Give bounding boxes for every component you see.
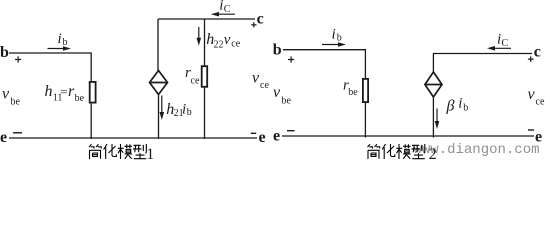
svg-text:i: i [458, 96, 462, 112]
label rce [185, 65, 200, 87]
svg-text:i: i [332, 27, 336, 43]
svg-text:b: b [463, 102, 468, 113]
bottom wire (right circuit) [282, 135, 534, 137]
svg-text:be: be [75, 93, 85, 104]
label ib (left) [58, 31, 68, 48]
minus sign at right e (right circuit) [528, 129, 534, 131]
svg-text:e: e [273, 128, 280, 145]
svg-text:e: e [259, 129, 266, 146]
wire b to h11 branch [9, 52, 92, 81]
svg-text:be: be [11, 97, 21, 108]
svg-text:v: v [2, 86, 10, 103]
svg-text:c: c [534, 44, 541, 61]
current iC arrow (right) [487, 46, 511, 51]
svg-text:ce: ce [260, 80, 269, 91]
svg-text:22: 22 [214, 40, 224, 51]
label ib (right) [332, 27, 342, 44]
resistor rce [202, 66, 208, 87]
plus sign at b (left) [15, 56, 21, 62]
label beta ib [446, 96, 469, 115]
svg-text:1: 1 [146, 146, 154, 163]
beta ib current arrow [435, 109, 440, 130]
svg-text:C: C [224, 4, 231, 15]
caption 简化模型2 [368, 144, 425, 159]
current ib arrow (right) [322, 42, 346, 47]
svg-text:b: b [337, 33, 342, 44]
svg-text:i: i [58, 31, 62, 47]
caption 简化模型1 [89, 144, 146, 159]
plus sign at c (left) [251, 22, 256, 27]
wire rbe to bottom [364, 103, 366, 138]
char hua [104, 144, 117, 159]
svg-text:e: e [0, 129, 7, 146]
svg-text:b: b [273, 41, 282, 58]
svg-text:ce: ce [231, 38, 240, 49]
svg-text:h: h [45, 83, 53, 100]
resistor rbe [363, 79, 368, 102]
svg-text:C: C [502, 38, 509, 49]
wire top to rce [204, 19, 206, 66]
label iC (left) [219, 0, 231, 15]
svg-text:ce: ce [536, 97, 545, 108]
label iC (right) [497, 32, 509, 50]
svg-text:v: v [224, 32, 231, 48]
svg-text:β: β [446, 97, 455, 114]
label h11=rbe [45, 83, 85, 104]
h21 current arrow [160, 96, 165, 121]
label vbe (right) [273, 84, 292, 107]
plus sign at b (right) [288, 56, 294, 62]
top wire (left circuit) [158, 18, 255, 20]
minus sign at left e [13, 132, 22, 134]
top wire (right circuit) [433, 53, 532, 55]
wire h11 to bottom [90, 104, 92, 139]
wire b to rbe branch [283, 49, 366, 78]
svg-text:c: c [257, 11, 264, 28]
resistor h11 [90, 82, 96, 103]
svg-text:v: v [252, 70, 260, 87]
current ib arrow (left) [48, 46, 72, 51]
char jian [89, 144, 101, 159]
minus sign at right e (left circuit) [251, 132, 256, 134]
wire top to diamond [157, 19, 159, 71]
svg-text:be: be [282, 96, 292, 107]
label h21 ib [166, 101, 192, 119]
label vce (left circuit) [252, 70, 269, 92]
svg-text:i: i [182, 101, 186, 117]
wire diamond to bottom [158, 95, 160, 140]
label vce (right circuit) [528, 86, 545, 108]
wire rce to bottom [204, 88, 206, 139]
dependent source beta ib diamond [425, 72, 442, 97]
char xing [133, 144, 146, 159]
svg-text:ce: ce [191, 76, 200, 87]
current iC arrow (left) [211, 12, 235, 17]
label vbe (left) [2, 86, 21, 108]
wire diamond to bottom (right) [432, 97, 434, 138]
svg-text:v: v [528, 86, 536, 103]
plus sign at c (right) [528, 56, 534, 61]
svg-text:v: v [273, 84, 281, 101]
h22 vce current arrow [197, 27, 202, 46]
label rbe [343, 78, 358, 98]
char mo [118, 144, 132, 159]
svg-text:b: b [0, 44, 9, 61]
svg-text:be: be [348, 87, 358, 98]
svg-text:b: b [63, 37, 68, 48]
svg-text:2: 2 [429, 146, 437, 163]
wire top to diamond (right) [432, 54, 434, 73]
bottom wire (left circuit) [9, 137, 257, 139]
label h22 vce [206, 31, 240, 51]
svg-text:b: b [187, 107, 192, 118]
minus sign at left e (right circuit) [287, 130, 295, 132]
svg-text:=: = [60, 84, 67, 99]
dependent source h21ib diamond [150, 71, 168, 95]
